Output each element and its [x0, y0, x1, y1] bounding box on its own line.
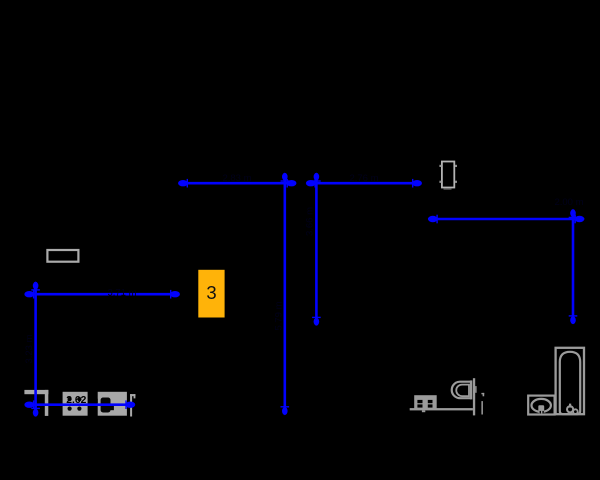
svg-text:3.71 m: 3.71 m — [107, 288, 136, 299]
svg-text:5.79 m: 5.79 m — [274, 301, 285, 330]
svg-text:2.00 m: 2.00 m — [554, 197, 583, 208]
svg-text:3.66 m: 3.66 m — [305, 207, 316, 236]
svg-text:3: 3 — [206, 282, 216, 303]
svg-text:2.83 m: 2.83 m — [222, 173, 251, 184]
svg-text:3.23 m: 3.23 m — [24, 334, 35, 363]
svg-text:2.62 m: 2.62 m — [66, 395, 98, 406]
svg-text:2.76 m: 2.76 m — [349, 173, 378, 184]
